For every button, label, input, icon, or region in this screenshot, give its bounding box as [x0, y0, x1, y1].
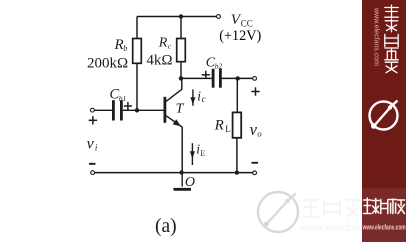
terminal Vcc [217, 15, 221, 19]
label Vcc [231, 12, 253, 28]
svg-text:T: T [176, 102, 185, 117]
label RL [214, 117, 231, 134]
node junction RL bottom [235, 170, 239, 174]
transistor collector diagonal [166, 89, 182, 101]
banner bottom site name glyphs [364, 198, 405, 214]
ground stub [181, 173, 183, 187]
banner logo circle [370, 101, 398, 130]
label vi [87, 136, 98, 153]
wire bottom rail [95, 172, 253, 174]
wire collector node to Cb2 [181, 77, 212, 79]
label Rc [158, 35, 172, 50]
capacitor Cb1 plates [112, 100, 123, 120]
banner background [362, 0, 406, 242]
svg-text:v: v [87, 136, 95, 153]
resistor R_b 200k [133, 39, 142, 64]
svg-text:www.elecfans: www.elecfans [299, 223, 366, 234]
svg-text:o: o [257, 129, 261, 139]
terminal output bottom [253, 171, 257, 175]
svg-text:4kΩ: 4kΩ [146, 53, 172, 69]
label Cb1 [110, 87, 127, 104]
watermark ghost text [303, 198, 360, 218]
capacitor Cb2 plates [212, 69, 222, 88]
wire Cb1 to base [123, 109, 164, 111]
wire Rb bottom [136, 63, 138, 110]
terminal output top [253, 77, 257, 81]
svg-text:c: c [202, 94, 206, 104]
terminal input top [91, 108, 95, 112]
svg-text:E: E [200, 149, 205, 158]
node junction emitter / ground [179, 170, 183, 174]
svg-text:(+12V): (+12V) [219, 28, 261, 44]
minus sign input [89, 163, 96, 165]
wire Rb top [136, 17, 138, 39]
current arrow iE [190, 143, 195, 165]
wire top rail [137, 16, 217, 18]
svg-text:L: L [225, 124, 231, 134]
plus sign near Cb2 [202, 71, 210, 79]
transistor Q1 base bar [164, 97, 167, 123]
transistor emitter diagonal [166, 116, 182, 127]
resistor R_L [233, 112, 242, 137]
svg-text:www.elecfans.com: www.elecfans.com [362, 222, 406, 231]
terminal input bottom [91, 171, 95, 175]
svg-text:b1: b1 [119, 94, 127, 103]
wire RL top [236, 78, 238, 112]
svg-text:R: R [214, 117, 224, 133]
wire Cb2 to output node [222, 77, 253, 79]
node junction collector [179, 76, 183, 80]
node junction base / Rb [135, 108, 139, 112]
svg-text:www.elecfans.com: www.elecfans.com [373, 7, 380, 66]
node junction top rail / Rc [179, 14, 183, 18]
resistor R_c 4k [177, 39, 186, 62]
plus sign input [89, 116, 97, 124]
node junction output / RL [236, 76, 240, 80]
transistor emitter arrowhead [173, 119, 181, 126]
plus sign near Cb1 [124, 102, 132, 110]
banner bottom light wash [362, 188, 406, 242]
svg-text:v: v [250, 120, 258, 139]
svg-text:(a): (a) [155, 216, 177, 237]
watermark circle logo gray [258, 192, 298, 232]
minus sign output [252, 162, 259, 164]
label iE [196, 142, 205, 158]
svg-text:O: O [185, 175, 195, 190]
label Rb [114, 37, 128, 53]
svg-text:b: b [123, 44, 127, 53]
current arrow ic [190, 90, 195, 106]
label Cb2 [206, 55, 223, 70]
svg-text:200kΩ: 200kΩ [87, 55, 128, 71]
wire Rc top [180, 17, 182, 39]
svg-text:R: R [158, 35, 168, 50]
plus sign output [251, 87, 259, 95]
svg-text:R: R [114, 37, 124, 53]
banner top vertical site name glyphs [385, 5, 398, 73]
wire emitter vertical [181, 127, 183, 173]
label ic [197, 89, 205, 104]
wire Rc bottom [180, 62, 182, 79]
wire RL bottom [236, 138, 238, 173]
svg-text:CC: CC [241, 19, 253, 29]
ground bar [174, 188, 192, 191]
wire collector vertical [181, 78, 183, 89]
label vo [250, 120, 262, 139]
wire input to Cb1 [94, 109, 112, 111]
svg-text:b2: b2 [215, 61, 223, 70]
